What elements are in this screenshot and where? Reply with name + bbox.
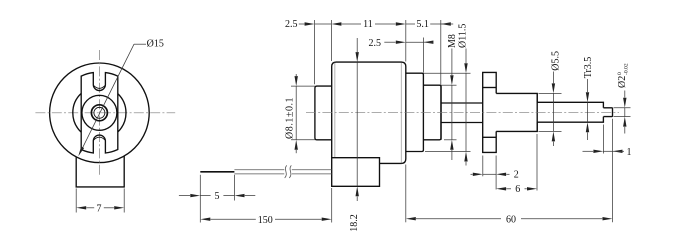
dim 2.5 (collar) right extension line xyxy=(422,38,424,73)
Ø5.5 hub extension stubs xyxy=(539,92,562,94)
front view: horizontal centerline xyxy=(35,112,175,114)
dimension 7: extension lines xyxy=(75,188,77,212)
dim 150: line arrows text xyxy=(200,218,210,221)
label Ø2 0/-0.02 (rotated) xyxy=(617,63,630,88)
dim 5.1: line arrows text xyxy=(406,23,415,25)
Tr3.5 dimension line with arrows xyxy=(587,79,589,92)
side view: hub right face xyxy=(536,93,538,131)
dim 2.5 (boss) extension lines xyxy=(314,20,316,84)
svg-text:Ø11.5: Ø11.5 xyxy=(458,24,469,48)
Ø8.1 dimension line with arrows xyxy=(295,74,297,76)
side view: rear boss Ø8.1 xyxy=(315,86,332,140)
Ø8.1 edge extension stubs xyxy=(291,85,315,87)
side view: screw flange plate xyxy=(483,72,497,152)
side view: thin shaft section xyxy=(441,102,483,104)
front view: motor outer body circle Ø15 xyxy=(50,63,150,163)
svg-text:5: 5 xyxy=(215,191,220,202)
Ø11.5 edge extension stubs xyxy=(423,72,470,74)
front view: mounting plate with two flats and U-slots xyxy=(81,73,118,153)
side view: tip pin Ø2 xyxy=(603,108,612,117)
dim 5: line arrows text xyxy=(179,195,190,197)
dim 1: line arrows text xyxy=(583,150,594,152)
svg-text:150: 150 xyxy=(258,215,273,226)
Ø2 pin extension stubs xyxy=(614,107,631,109)
leader line for Ø15 xyxy=(81,44,135,152)
dim 2: line arrows text xyxy=(471,173,473,175)
svg-text:2.5: 2.5 xyxy=(369,38,382,49)
dim 18.2: vertical line arrows xyxy=(356,38,358,52)
dim 6: extension line xyxy=(536,134,538,191)
side view: terminal block xyxy=(332,158,380,187)
dim 5/150 shared left extension line xyxy=(199,175,201,223)
dim 150: right extension line xyxy=(331,188,333,223)
svg-text:18.2: 18.2 xyxy=(349,214,360,232)
dimension 7: dimension line and arrows xyxy=(76,206,86,209)
svg-text:Ø2: Ø2 xyxy=(617,76,628,88)
front view: U-slot bottom detail arcs xyxy=(94,86,105,89)
dim 5.1 right extension line xyxy=(440,20,442,85)
side view: axis centerline xyxy=(306,112,619,114)
svg-text:Ø15: Ø15 xyxy=(147,39,164,50)
dim 5: right extension line xyxy=(234,175,236,201)
svg-text:5.1: 5.1 xyxy=(416,19,429,30)
M8 edge extension stubs xyxy=(441,84,457,86)
dim 2: extension lines xyxy=(482,156,484,177)
side view: lead screw Tr3.5 xyxy=(537,102,603,122)
svg-text:7: 7 xyxy=(97,203,102,214)
side view: flange boss edge top xyxy=(483,87,497,89)
front view: boss circle side arcs xyxy=(73,93,81,132)
svg-text:2: 2 xyxy=(514,170,519,181)
svg-text:11: 11 xyxy=(363,19,373,30)
side view: threaded section M8 xyxy=(423,85,441,140)
front view: bottom terminal tab xyxy=(76,156,124,187)
dim 11 / 5.1 shared extension line xyxy=(405,20,407,62)
svg-text:6: 6 xyxy=(515,184,520,195)
side view: body seam lines xyxy=(334,63,336,158)
front view: middle ring circle xyxy=(82,95,117,130)
svg-text:Ø8.1±0.1: Ø8.1±0.1 xyxy=(285,97,296,139)
M8 dimension line with arrows xyxy=(451,49,453,76)
svg-text:Tr3.5: Tr3.5 xyxy=(583,57,594,79)
dim 6: line arrows text xyxy=(496,187,506,190)
Ø2 dimension line with arrows xyxy=(624,91,626,98)
wire break squiggles xyxy=(285,165,287,178)
svg-text:60: 60 xyxy=(506,214,516,225)
svg-text:1: 1 xyxy=(627,147,632,158)
stripped wire core xyxy=(200,171,234,173)
front view: shaft inner circle xyxy=(94,107,105,118)
wire insulation lines xyxy=(234,169,284,171)
side view: collar step Ø11.5 xyxy=(406,73,424,151)
side view: hub Ø5.5 xyxy=(496,93,537,131)
side view: main motor body xyxy=(332,62,406,163)
svg-text:0: 0 xyxy=(617,72,623,75)
svg-text:M8: M8 xyxy=(447,34,458,48)
dim 11: arrows and text xyxy=(331,22,341,25)
front view: vertical centerline xyxy=(98,50,100,176)
dim 60: line arrows text xyxy=(406,217,416,220)
Ø5.5 dimension line with arrows xyxy=(552,72,554,84)
Ø11.5 dimension line with arrows xyxy=(465,49,467,64)
svg-text:-0.02: -0.02 xyxy=(623,63,629,75)
front view: shaft hub circle xyxy=(91,105,107,121)
side view: flange boss edge bottom xyxy=(483,136,497,138)
dim 60: left extension line xyxy=(405,165,407,223)
dim 1: extension lines xyxy=(602,125,604,154)
svg-text:Ø5.5: Ø5.5 xyxy=(551,51,562,71)
svg-text:2.5: 2.5 xyxy=(285,19,298,30)
